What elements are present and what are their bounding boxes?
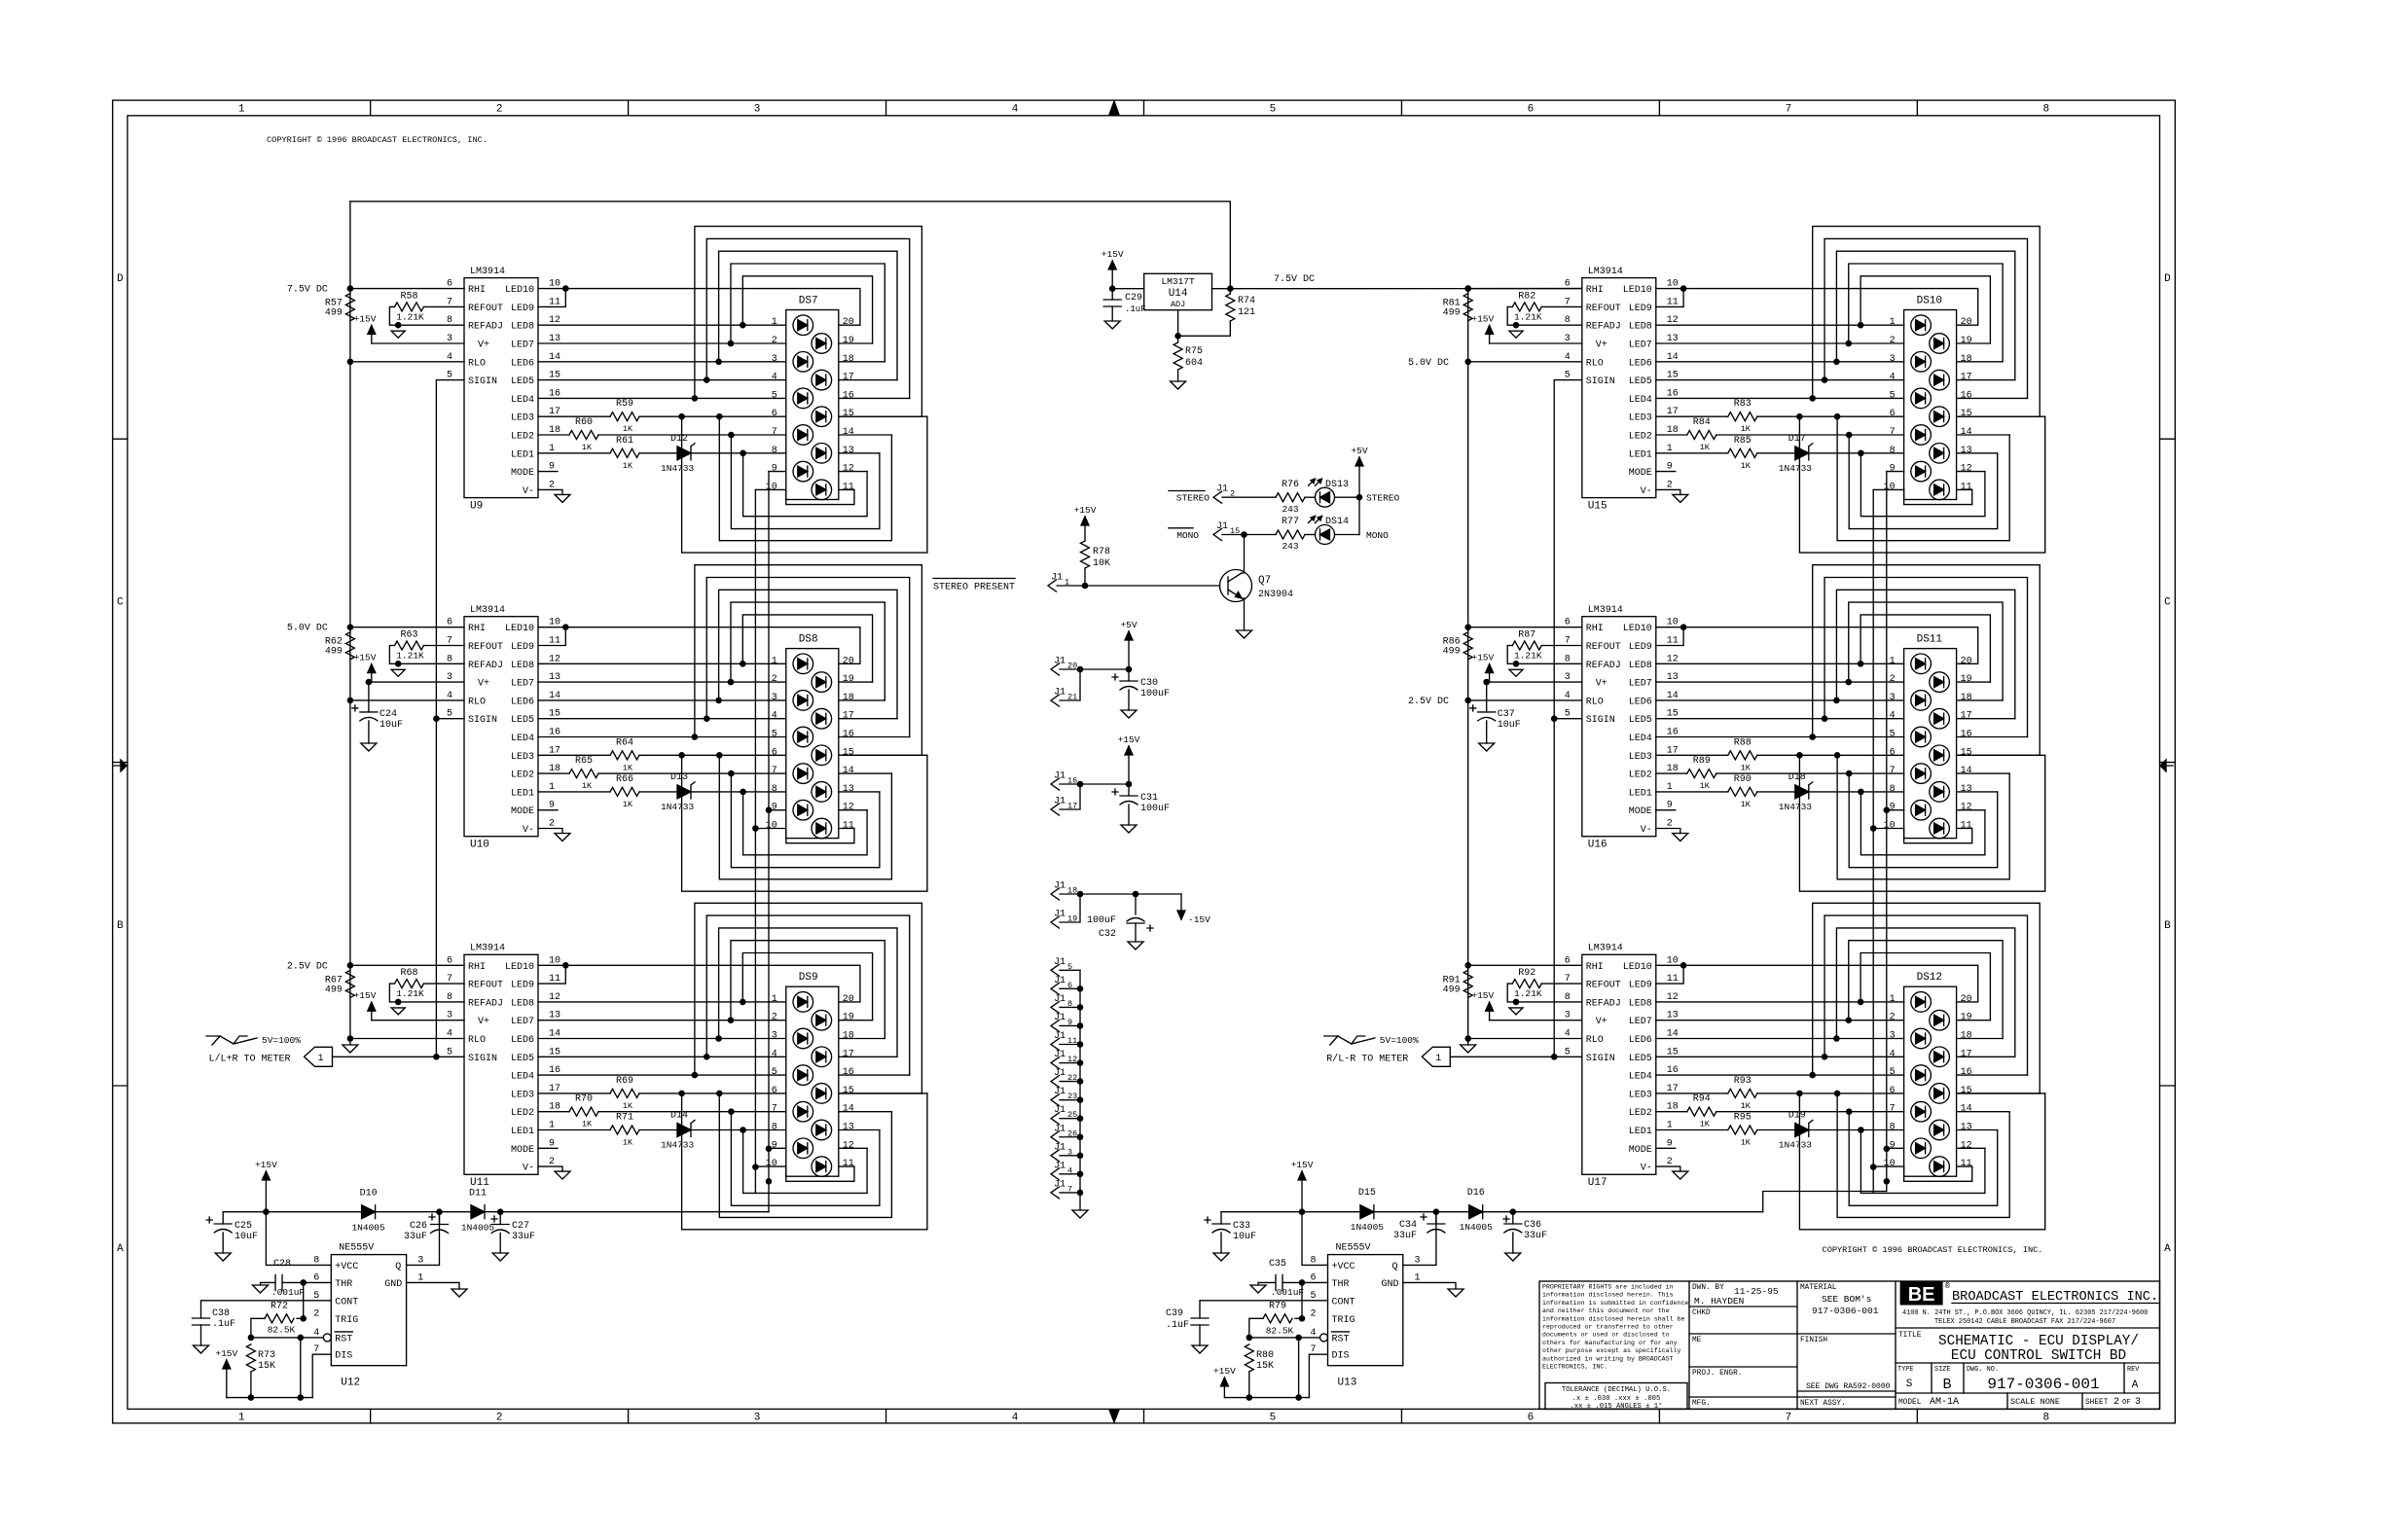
svg-text:R92: R92 bbox=[1518, 968, 1535, 979]
svg-text:12: 12 bbox=[843, 803, 854, 813]
svg-text:.x ± .030 .xxx ± .005: .x ± .030 .xxx ± .005 bbox=[1572, 1395, 1661, 1403]
svg-text:LED8: LED8 bbox=[1629, 322, 1652, 333]
svg-text:R72: R72 bbox=[271, 1301, 288, 1311]
svg-text:MODE: MODE bbox=[511, 806, 534, 817]
wire RHI row bbox=[350, 627, 464, 628]
svg-text:D10: D10 bbox=[360, 1189, 378, 1200]
wire DIS bbox=[312, 1354, 331, 1397]
svg-text:C31: C31 bbox=[1140, 793, 1158, 804]
svg-text:LED2: LED2 bbox=[511, 1108, 534, 1119]
svg-text:2: 2 bbox=[772, 336, 777, 346]
svg-text:MONO: MONO bbox=[1366, 530, 1389, 541]
wire display row10 feed bbox=[1873, 488, 1903, 490]
wire LED4 row bbox=[538, 736, 786, 738]
ground below REFADJ bbox=[391, 1008, 405, 1015]
svg-text:C37: C37 bbox=[1498, 709, 1515, 720]
ground below C39 bbox=[1192, 1345, 1208, 1353]
svg-text:7: 7 bbox=[772, 1104, 777, 1115]
svg-text:2: 2 bbox=[2113, 1397, 2119, 1408]
svg-text:GND: GND bbox=[1381, 1279, 1398, 1290]
wire LED9 jog bbox=[538, 627, 565, 646]
DS10 LED segment 4 bbox=[1930, 370, 1950, 390]
wire LED6 row bbox=[538, 361, 786, 363]
svg-text:18: 18 bbox=[1961, 1031, 1972, 1042]
connector J1 pin 20 bbox=[1051, 663, 1060, 675]
capacitor C37 10uF bbox=[1487, 681, 1490, 683]
svg-text:10uF: 10uF bbox=[1233, 1232, 1256, 1242]
svg-text:V-: V- bbox=[523, 1164, 534, 1174]
IC U15 LM3914 bar-graph driver bbox=[1582, 278, 1656, 498]
capacitor C34 33uF bbox=[1435, 1212, 1437, 1224]
svg-text:J1: J1 bbox=[1054, 1031, 1066, 1042]
svg-text:R89: R89 bbox=[1693, 756, 1711, 767]
wire RLO row bbox=[1468, 699, 1582, 701]
wire LED7 row bbox=[1656, 681, 1904, 683]
wire LED7 row bbox=[1656, 1020, 1904, 1021]
svg-text:499: 499 bbox=[325, 985, 343, 995]
svg-text:THR: THR bbox=[335, 1279, 352, 1290]
wire LED10 to display pin 20 bbox=[1656, 965, 1978, 1002]
svg-text:.1uF: .1uF bbox=[1125, 304, 1146, 314]
svg-text:LED6: LED6 bbox=[511, 1035, 534, 1046]
svg-text:V-: V- bbox=[1641, 486, 1652, 497]
ground left of C35 bbox=[1250, 1285, 1266, 1293]
wire outer wrap loop bbox=[1799, 1093, 2044, 1230]
svg-text:.1uF: .1uF bbox=[1166, 1320, 1189, 1331]
capacitor C25 10uF bbox=[222, 1212, 224, 1224]
svg-text:SEE DWG RA592-0000: SEE DWG RA592-0000 bbox=[1806, 1382, 1891, 1391]
svg-text:LED6: LED6 bbox=[1629, 1035, 1652, 1046]
DS11 LED segment 7 bbox=[1911, 764, 1932, 784]
svg-text:D11: D11 bbox=[469, 1189, 487, 1200]
svg-text:5: 5 bbox=[772, 1067, 777, 1078]
svg-text:1K: 1K bbox=[623, 424, 633, 434]
svg-text:499: 499 bbox=[1443, 647, 1461, 658]
svg-text:D12: D12 bbox=[670, 434, 688, 445]
svg-text:R93: R93 bbox=[1734, 1076, 1752, 1087]
wire inter-cluster link row9 bbox=[768, 810, 770, 1149]
LED display DS10 bbox=[1904, 310, 1957, 500]
wire wrap lower 2 bbox=[743, 792, 868, 855]
svg-text:MATERIAL: MATERIAL bbox=[1800, 1284, 1837, 1292]
ground below C36 bbox=[1505, 1253, 1521, 1261]
capacitor C39 .1uF bbox=[1191, 1317, 1209, 1319]
wire +VCC U13 bbox=[1302, 1212, 1328, 1266]
wire pin stub right row8 bbox=[1957, 791, 1998, 793]
wire outer wrap loop bbox=[682, 755, 927, 891]
svg-text:6: 6 bbox=[1890, 747, 1896, 758]
svg-text:ELECTRONICS, INC.: ELECTRONICS, INC. bbox=[1542, 1364, 1607, 1371]
resistor R65 1K bbox=[538, 772, 569, 774]
wire wrap lower 1 bbox=[731, 435, 880, 529]
svg-text:1.21K: 1.21K bbox=[1514, 311, 1542, 322]
svg-text:5V=100%: 5V=100% bbox=[262, 1035, 301, 1046]
capacitor C24 10uF bbox=[369, 681, 372, 683]
DS7 LED segment 2 bbox=[812, 334, 832, 354]
Q7 collector wire bbox=[1242, 535, 1245, 574]
IC U16 LM3914 bar-graph driver bbox=[1582, 617, 1656, 837]
svg-text:D13: D13 bbox=[670, 772, 688, 783]
svg-text:C34: C34 bbox=[1399, 1220, 1417, 1231]
wire LED9 jog bbox=[538, 965, 565, 984]
wire SIGIN bus left bbox=[436, 380, 464, 1057]
svg-text:15: 15 bbox=[843, 747, 854, 758]
svg-text:REFADJ: REFADJ bbox=[1586, 661, 1621, 671]
svg-text:1K: 1K bbox=[623, 461, 633, 471]
resistor R79 82.5K bbox=[1295, 1317, 1302, 1319]
svg-text:COPYRIGHT © 1996 BROADCAST ELE: COPYRIGHT © 1996 BROADCAST ELECTRONICS, … bbox=[267, 135, 488, 145]
wire pin stub right row6 bbox=[839, 415, 922, 417]
svg-text:C27: C27 bbox=[512, 1221, 529, 1232]
wire inter-cluster link row10 bbox=[754, 829, 756, 1167]
wire pin stub right row5 bbox=[1957, 736, 2028, 738]
DS11 LED segment 9 bbox=[1911, 800, 1932, 820]
svg-text:1N4733: 1N4733 bbox=[661, 1140, 695, 1151]
wire LED10 to display pin 20 bbox=[1656, 627, 1978, 664]
svg-text:others for manufacturing or fo: others for manufacturing or for any bbox=[1542, 1340, 1678, 1346]
svg-text:LED10: LED10 bbox=[505, 962, 534, 973]
svg-text:D: D bbox=[2164, 273, 2171, 285]
capacitor C35 .001uF bbox=[1275, 1274, 1277, 1290]
connector J1 pin 25 bbox=[1051, 1113, 1060, 1125]
U15 V- pin 2 to ground bbox=[1656, 489, 1680, 494]
wire LED8 row bbox=[1656, 324, 1904, 326]
svg-text:LED4: LED4 bbox=[1629, 734, 1652, 744]
svg-text:3: 3 bbox=[2135, 1397, 2141, 1408]
wire wrap upper 2 bbox=[719, 590, 897, 718]
svg-text:LED4: LED4 bbox=[511, 734, 534, 744]
svg-text:10: 10 bbox=[766, 482, 777, 492]
svg-text:D: D bbox=[117, 273, 124, 285]
wire wrap lower 0 bbox=[1837, 416, 2009, 541]
svg-text:U16: U16 bbox=[1588, 840, 1607, 851]
svg-text:15: 15 bbox=[1961, 747, 1972, 758]
wire CONT to C38 bbox=[201, 1301, 332, 1318]
svg-text:6: 6 bbox=[772, 747, 777, 758]
DS8 LED segment 1 bbox=[793, 654, 813, 674]
transistor Q7 2N3904 bbox=[1220, 570, 1252, 602]
wire pin stub right row3 bbox=[839, 361, 885, 363]
wire right reference bus bbox=[1467, 289, 1469, 627]
wire DIS U13 bbox=[1309, 1354, 1327, 1397]
svg-text:J1: J1 bbox=[1054, 1124, 1066, 1134]
svg-text:OF: OF bbox=[2122, 1399, 2131, 1407]
wire LED6 row bbox=[1656, 699, 1904, 701]
svg-text:SCALE NONE: SCALE NONE bbox=[2010, 1397, 2060, 1407]
svg-text:A: A bbox=[2132, 1379, 2139, 1391]
capacitor C26 33uF bbox=[439, 1212, 441, 1225]
wire display row10 feed bbox=[755, 488, 785, 490]
wire pin stub right row7 bbox=[1957, 772, 2010, 774]
DS9 LED segment 8 bbox=[812, 1120, 832, 1140]
DS11 LED segment 1 bbox=[1911, 654, 1932, 674]
wire pin stub right row3 bbox=[1957, 361, 2004, 363]
svg-text:1K: 1K bbox=[582, 1120, 593, 1129]
wire wrap upper 0 bbox=[1813, 227, 2041, 417]
svg-text:PROJ. ENGR.: PROJ. ENGR. bbox=[1692, 1370, 1742, 1378]
svg-text:33uF: 33uF bbox=[1393, 1231, 1417, 1241]
svg-text:STEREO: STEREO bbox=[1366, 493, 1400, 504]
svg-text:MODE: MODE bbox=[1629, 1145, 1652, 1156]
svg-text:C29: C29 bbox=[1125, 293, 1142, 304]
svg-text:14: 14 bbox=[843, 766, 854, 776]
wire pin stub right row2 bbox=[1957, 681, 1991, 683]
LED display DS12 bbox=[1904, 986, 1957, 1176]
wire LED8 row bbox=[538, 324, 786, 326]
svg-text:1: 1 bbox=[238, 1413, 245, 1424]
wire wrap upper 0 bbox=[695, 903, 922, 1093]
svg-text:TELEX 250142 CABLE BROADCAST: TELEX 250142 CABLE BROADCAST FAX 217/224… bbox=[1934, 1318, 2115, 1326]
svg-text:18: 18 bbox=[843, 354, 854, 365]
svg-text:9: 9 bbox=[1890, 464, 1896, 475]
svg-text:1K: 1K bbox=[1741, 1138, 1752, 1148]
DS9 LED segment 6 bbox=[812, 1084, 832, 1104]
svg-text:BE: BE bbox=[1908, 1284, 1935, 1306]
svg-text:RHI: RHI bbox=[1586, 285, 1604, 296]
svg-text:2: 2 bbox=[496, 104, 503, 116]
svg-text:18: 18 bbox=[1961, 354, 1972, 365]
svg-text:.001uF: .001uF bbox=[1271, 1287, 1305, 1298]
wire wrap upper 0 bbox=[695, 565, 922, 756]
svg-text:LM317T: LM317T bbox=[1161, 276, 1195, 287]
svg-text:R87: R87 bbox=[1518, 630, 1535, 641]
svg-text:11: 11 bbox=[1961, 482, 1972, 492]
DS12 LED segment 4 bbox=[1930, 1047, 1950, 1067]
svg-text:10: 10 bbox=[1884, 821, 1896, 832]
svg-text:17: 17 bbox=[843, 373, 854, 383]
svg-text:SEE BOM's: SEE BOM's bbox=[1822, 1294, 1871, 1305]
svg-text:20: 20 bbox=[1961, 994, 1972, 1005]
svg-text:LED8: LED8 bbox=[511, 322, 534, 333]
svg-text:MONO: MONO bbox=[1176, 530, 1199, 541]
DS12 LED segment 10 bbox=[1930, 1157, 1950, 1177]
wire LED7 row bbox=[538, 1020, 786, 1021]
svg-text:TOLERANCE (DECIMAL) U.O.S.: TOLERANCE (DECIMAL) U.O.S. bbox=[1562, 1386, 1671, 1394]
charge pump rail right bbox=[1221, 1211, 1763, 1213]
capacitor C28 .001uF bbox=[304, 1281, 332, 1283]
-15V arrow bbox=[1180, 894, 1182, 911]
DS10 LED segment 2 bbox=[1930, 334, 1950, 354]
svg-text:SIGIN: SIGIN bbox=[1586, 376, 1615, 387]
svg-text:THR: THR bbox=[1332, 1279, 1350, 1290]
svg-text:R82: R82 bbox=[1518, 291, 1535, 302]
ground below REFADJ bbox=[391, 331, 405, 338]
svg-text:D17: D17 bbox=[1788, 434, 1806, 445]
resistor R75 604 bbox=[1174, 342, 1182, 370]
svg-text:4: 4 bbox=[772, 1049, 777, 1059]
svg-text:3: 3 bbox=[1890, 693, 1896, 703]
svg-text:+15V: +15V bbox=[1102, 249, 1124, 260]
svg-text:S: S bbox=[1906, 1379, 1913, 1390]
svg-text:RLO: RLO bbox=[1586, 697, 1604, 707]
ground below C27 bbox=[492, 1253, 508, 1261]
model scale sheet row bbox=[2006, 1393, 2008, 1409]
svg-text:+VCC: +VCC bbox=[335, 1262, 358, 1272]
type size dwg rev row bbox=[1931, 1363, 1932, 1393]
wire pin stub right row10 bbox=[839, 1165, 854, 1167]
svg-text:R77: R77 bbox=[1282, 517, 1299, 527]
svg-text:LM3914: LM3914 bbox=[1588, 944, 1623, 954]
wire wrap lower 1 bbox=[731, 1112, 880, 1206]
zener diode D17 1N4733 bbox=[1757, 452, 1795, 454]
svg-text:1: 1 bbox=[238, 104, 245, 116]
svg-text:and neither this document nor: and neither this document nor the bbox=[1542, 1307, 1670, 1314]
resistor R58 1.21K bbox=[424, 305, 465, 307]
wire pin stub right row10 bbox=[1957, 828, 1972, 830]
svg-text:15: 15 bbox=[843, 409, 854, 419]
DS8 LED segment 2 bbox=[812, 672, 832, 693]
svg-text:C24: C24 bbox=[379, 709, 397, 720]
svg-text:C36: C36 bbox=[1524, 1220, 1541, 1231]
connector J1 pin 23 bbox=[1051, 1094, 1060, 1106]
svg-text:2: 2 bbox=[772, 1013, 777, 1023]
DS8 LED segment 4 bbox=[812, 708, 832, 729]
resistor R88 1K bbox=[1656, 754, 1728, 756]
svg-text:5: 5 bbox=[1270, 104, 1277, 116]
wire V+ row bbox=[1490, 681, 1582, 683]
svg-text:4: 4 bbox=[1890, 1049, 1896, 1059]
wire pin stub right row6 outer bbox=[1957, 1092, 2045, 1094]
capacitor C33 10uF bbox=[1220, 1212, 1222, 1224]
wire wrap lower 1 bbox=[731, 773, 880, 868]
svg-text:LED1: LED1 bbox=[511, 449, 534, 460]
svg-text:4: 4 bbox=[1012, 1413, 1019, 1424]
svg-text:10: 10 bbox=[766, 821, 777, 832]
DS11 LED segment 10 bbox=[1930, 818, 1950, 839]
svg-text:1N4733: 1N4733 bbox=[1779, 1140, 1813, 1151]
svg-text:6: 6 bbox=[772, 1086, 777, 1096]
wire wrap lower row10 bbox=[786, 489, 854, 504]
wire display row9 feed bbox=[769, 809, 786, 811]
svg-text:J1: J1 bbox=[1054, 797, 1066, 807]
svg-text:1N4005: 1N4005 bbox=[1460, 1222, 1494, 1233]
svg-text:TITLE: TITLE bbox=[1898, 1332, 1922, 1340]
svg-text:LM3914: LM3914 bbox=[1588, 267, 1623, 277]
DS12 LED segment 1 bbox=[1911, 992, 1932, 1013]
svg-text:16: 16 bbox=[1961, 730, 1972, 740]
svg-text:J1: J1 bbox=[1054, 910, 1066, 920]
svg-text:LED7: LED7 bbox=[511, 340, 534, 351]
svg-text:RLO: RLO bbox=[468, 358, 486, 369]
wire pin stub right row8 bbox=[839, 452, 880, 454]
svg-text:R75: R75 bbox=[1185, 346, 1203, 357]
svg-text:R78: R78 bbox=[1093, 547, 1110, 557]
wire wrap lower 2 bbox=[1860, 1130, 1985, 1194]
charge pump rail left bbox=[223, 1211, 769, 1213]
resistor R74 121 bbox=[1226, 294, 1235, 321]
DS7 LED segment 4 bbox=[812, 370, 832, 390]
svg-text:C28: C28 bbox=[273, 1259, 291, 1270]
wire pin stub right row6 bbox=[839, 754, 922, 756]
svg-text:LED2: LED2 bbox=[1629, 432, 1652, 443]
wire pin stub right row7 bbox=[1957, 434, 2010, 436]
svg-text:A: A bbox=[117, 1243, 124, 1255]
svg-text:DWG. NO.: DWG. NO. bbox=[1967, 1366, 1999, 1374]
svg-text:BROADCAST ELECTRONICS INC.: BROADCAST ELECTRONICS INC. bbox=[1952, 1290, 2158, 1305]
svg-text:documents or used or disclosed: documents or used or disclosed to bbox=[1542, 1332, 1670, 1339]
ground below C30 bbox=[1121, 710, 1137, 718]
svg-text:R65: R65 bbox=[575, 756, 593, 767]
DS10 LED segment 3 bbox=[1911, 352, 1932, 373]
resistor R78 10K bbox=[1081, 541, 1090, 568]
svg-text:REFOUT: REFOUT bbox=[468, 642, 503, 653]
svg-text:REFOUT: REFOUT bbox=[1586, 981, 1621, 991]
DS9 LED segment 1 bbox=[793, 992, 813, 1013]
wire display row10 feed bbox=[1873, 828, 1903, 830]
wire wrap lower 0 bbox=[1837, 755, 2009, 879]
wire inter-cluster link row10 bbox=[754, 489, 756, 828]
wire LED7 row bbox=[1656, 342, 1904, 344]
svg-text:REFOUT: REFOUT bbox=[1586, 304, 1621, 314]
svg-text:8: 8 bbox=[2043, 104, 2050, 116]
LED DS14 bbox=[1316, 525, 1335, 545]
wire LED7 row bbox=[538, 681, 786, 683]
resistor R73 15K bbox=[246, 1344, 255, 1372]
DS10 LED segment 10 bbox=[1930, 480, 1950, 500]
DS12 LED segment 8 bbox=[1930, 1120, 1950, 1140]
resistor R60 1K bbox=[538, 434, 569, 436]
svg-text:C: C bbox=[117, 596, 124, 608]
svg-text:LED7: LED7 bbox=[1629, 679, 1652, 690]
svg-text:2: 2 bbox=[1890, 674, 1896, 685]
svg-text:C25: C25 bbox=[235, 1221, 252, 1232]
wire inter-cluster link row10 bbox=[1872, 489, 1874, 828]
wire pin stub right row7 bbox=[839, 434, 892, 436]
wire RLO row bbox=[350, 699, 464, 701]
wire display row9 feed bbox=[769, 471, 786, 473]
U17 V- pin 2 to ground bbox=[1656, 1166, 1680, 1171]
svg-text:RST: RST bbox=[335, 1334, 352, 1344]
svg-text:16: 16 bbox=[843, 730, 854, 740]
wire LED9 jog bbox=[1656, 965, 1683, 984]
connector J1 pin 22 bbox=[1051, 1076, 1060, 1088]
svg-text:L/L+R TO METER: L/L+R TO METER bbox=[209, 1054, 291, 1065]
svg-text:RHI: RHI bbox=[468, 962, 486, 973]
connector J1 pin 8 bbox=[1051, 1001, 1060, 1013]
svg-text:U14: U14 bbox=[1169, 288, 1188, 300]
svg-text:5V=100%: 5V=100% bbox=[1380, 1035, 1419, 1046]
wire LED6 row bbox=[538, 1038, 786, 1040]
wire LED5 row bbox=[538, 718, 786, 720]
connector J1 pin 6 bbox=[1051, 983, 1060, 994]
resistor R72 82.5K bbox=[297, 1317, 304, 1319]
svg-text:499: 499 bbox=[325, 308, 343, 319]
svg-text:LED2: LED2 bbox=[511, 432, 534, 443]
wire LED5 row bbox=[1656, 379, 1904, 381]
svg-text:20: 20 bbox=[843, 994, 854, 1005]
resistor R77 243 bbox=[1276, 530, 1305, 539]
svg-text:J1: J1 bbox=[1216, 484, 1228, 495]
diode D11 1N4005 bbox=[471, 1205, 485, 1219]
svg-text:6: 6 bbox=[1528, 1413, 1535, 1424]
svg-text:+15V: +15V bbox=[1118, 734, 1140, 745]
DS10 LED segment 7 bbox=[1911, 425, 1932, 446]
IC U9 LM3914 bar-graph driver bbox=[464, 278, 538, 498]
svg-text:4: 4 bbox=[772, 711, 777, 722]
wire LED4 row bbox=[538, 397, 786, 399]
svg-text:9: 9 bbox=[1890, 803, 1896, 813]
svg-text:R69: R69 bbox=[616, 1076, 633, 1087]
svg-text:STEREO PRESENT: STEREO PRESENT bbox=[933, 583, 1015, 593]
DS12 LED segment 5 bbox=[1911, 1065, 1932, 1086]
svg-text:LED9: LED9 bbox=[511, 981, 534, 991]
wire pin stub right row6 bbox=[839, 1092, 922, 1094]
svg-text:18: 18 bbox=[1961, 693, 1972, 703]
svg-text:NEXT ASSY.: NEXT ASSY. bbox=[1800, 1400, 1846, 1408]
IC U10 LM3914 bar-graph driver bbox=[464, 617, 538, 837]
svg-text:1K: 1K bbox=[1741, 461, 1752, 471]
resistor R89 1K bbox=[1656, 772, 1687, 774]
